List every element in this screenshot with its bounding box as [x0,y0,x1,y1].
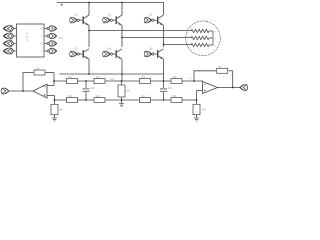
svg-text:1M: 1M [36,68,39,71]
svg-text:1M: 1M [218,66,221,69]
svg-text:e2: e2 [124,72,127,74]
svg-text:a: a [215,31,217,34]
svg-text:Q2: Q2 [75,48,79,51]
svg-text:Q1: Q1 [75,14,79,17]
svg-text:b: b [215,38,217,41]
svg-text:VCC: VCC [58,37,63,40]
svg-text:Q3: Q3 [108,14,112,17]
svg-text:10k: 10k [202,109,207,112]
svg-text:104: 104 [91,87,96,90]
svg-text:c: c [215,45,217,48]
svg-text:e1: e1 [91,72,94,74]
svg-text:IR: IR [26,34,29,36]
svg-text:Vo: Vo [189,78,192,80]
svg-text:104: 104 [168,87,173,90]
svg-text:10k: 10k [126,90,131,93]
svg-text:Q4: Q4 [108,48,112,51]
svg-text:10k: 10k [59,109,64,112]
svg-text:Q6: Q6 [149,48,153,51]
svg-text:Q5: Q5 [149,14,153,17]
svg-text:10k: 10k [110,78,115,81]
